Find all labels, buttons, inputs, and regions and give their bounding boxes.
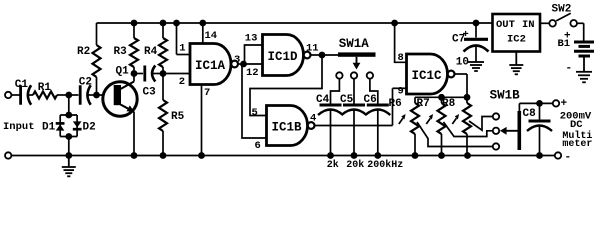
resistor R4 [144,23,167,74]
pin label 6 [255,140,261,152]
wire IC1C output [454,74,467,97]
svg-text:IC1D: IC1D [268,50,299,64]
wire base node to Q1 [97,94,115,96]
wire diodes to rail [68,137,70,156]
svg-text:SW1A: SW1A [339,37,370,51]
svg-text:IC1C: IC1C [412,69,443,83]
node top-R8 [464,94,471,101]
trimmer R8 [442,97,471,155]
node rail-diodes [65,152,72,159]
ground symbol C7 [468,62,484,71]
wire C7 to ground [475,47,477,63]
wire contact1 to C4 [331,79,340,104]
node rail-R3 [131,20,138,27]
input terminal - [5,152,11,158]
wire C8 top [539,103,541,119]
label plus output [561,98,568,110]
svg-text:R7: R7 [417,98,430,110]
transistor Q1 collector [121,74,135,90]
switch SW2 [549,4,577,27]
svg-text:R5: R5 [171,111,185,123]
node rail-R4 [160,20,167,27]
svg-text:IN: IN [522,19,535,31]
node top-R7 [438,94,445,101]
svg-text:R4: R4 [144,46,158,58]
wire pin6 [242,64,267,138]
pin label 12 [246,67,259,79]
output terminal + [553,100,559,106]
svg-text:R8: R8 [442,98,456,110]
node rail-C6 [374,152,381,159]
wire trimmer top line [415,96,467,98]
svg-text:IC2: IC2 [507,34,526,46]
wire diode branch bottom [60,136,77,138]
svg-text:-: - [566,63,573,75]
svg-text:5: 5 [252,107,258,119]
switch SW1A contact 1 [336,72,342,78]
wire pin14 [202,23,204,43]
capacitor C5 [340,94,367,115]
svg-text:14: 14 [205,30,218,42]
node rail-R7 [438,152,445,159]
wire pin7 [201,85,203,156]
svg-text:12: 12 [246,67,259,79]
wire R6 wiper to contact3 [417,122,493,147]
wire C7 top [475,23,477,38]
wire diodes stem top [68,95,70,115]
svg-text:7: 7 [204,87,210,99]
wire pin8 [395,23,407,62]
wire R1 to node [57,94,69,96]
pin label 11 [306,42,319,54]
svg-text:SW2: SW2 [552,4,572,16]
switch SW1B bar [518,111,522,150]
svg-text:DC: DC [570,119,583,131]
switch SW1A contact 3 [367,72,373,78]
switch SW1B contact 1 [493,113,499,119]
wire C4 to rail [330,110,332,156]
transistor Q1 body [103,65,137,116]
pin label 7 [204,87,210,99]
label B1 minus [566,63,573,75]
switch SW1A contact 2 [351,72,357,78]
svg-text:R1: R1 [38,82,52,94]
pin label 14 [205,30,218,42]
svg-text:+: + [463,29,469,41]
trimmer R7 arrow [426,114,433,124]
capacitor C7 [452,29,489,52]
svg-text:C2: C2 [79,77,92,89]
input terminal + [5,92,11,98]
capacitor C3 [143,66,157,99]
capacitor C1 [15,79,31,105]
node IC1D out [319,52,326,59]
svg-text:Input: Input [3,121,35,133]
node rail-R6 [412,152,419,159]
transistor Q1 emitter [121,105,135,156]
node collector-C3 [131,70,138,77]
capacitor C2 [79,77,92,105]
node rail-pin7 [198,152,205,159]
pin label 3 [234,54,240,66]
label 200kHz [367,159,403,171]
label 20k [346,159,364,171]
svg-text:2: 2 [179,76,185,88]
label 200mV [560,110,592,122]
switch SW1B arrow [500,127,518,135]
wire C1 to R1 [28,94,33,96]
wire V+ top rail [97,22,493,24]
svg-text:D1: D1 [42,122,56,134]
svg-text:Q1: Q1 [116,65,130,77]
svg-text:R6: R6 [389,98,402,110]
svg-text:20k: 20k [346,159,364,171]
switch SW1A bar [338,37,376,57]
nand gate IC1C [407,54,455,94]
pin label 1 [179,43,185,55]
node rail-pin14 [199,20,206,27]
wire pin13 [245,45,263,64]
node R4-R5-pin2 [160,70,167,77]
wire R2 top drop [96,23,98,45]
node C8 top [536,100,543,107]
pin label 4 [310,112,316,124]
pin label 5 [252,107,258,119]
trimmer R6 [389,97,420,155]
pin label 13 [245,33,258,45]
node rail-C7 [473,20,480,27]
node rail-R8 [464,152,471,159]
svg-text:C6: C6 [364,94,377,106]
wire IC2 ground [515,52,517,65]
resistor R2 [77,45,101,95]
ground rail bottom [11,155,554,157]
resistor R5 [159,74,185,156]
wire diode branch top [60,115,77,137]
svg-text:-: - [565,152,572,164]
switch SW1B contact 3 [493,143,499,149]
wire collector node to C3 [134,73,143,75]
wire C2 to base node [87,94,97,96]
switch SW1A arrow [353,57,361,70]
label SW1B [490,88,521,102]
diode D2 [73,121,96,133]
svg-text:IC1A: IC1A [195,59,226,73]
pin label 10 [456,56,469,68]
node base [93,92,100,99]
wire SW1B to output [519,103,552,111]
svg-text:meter: meter [562,139,592,150]
svg-text:11: 11 [306,42,319,54]
node IC1A out [240,61,247,68]
trimmer R8 arrow [452,114,459,124]
node rail-C4 [327,152,334,159]
label 2k [327,159,339,171]
wire contact2 to C5 [353,79,355,104]
resistor R3 [114,23,139,74]
svg-text:R3: R3 [114,46,128,58]
regulator IC2 [493,14,541,52]
wire node to pin2 [163,73,190,75]
label minus output [565,152,572,164]
node rail-emitter [131,152,138,159]
svg-text:2k: 2k [327,159,339,171]
wire B1 to ground [583,56,585,71]
wire C3 to R4 node [152,73,164,75]
label DC [570,119,583,131]
node rail-R5 [160,152,167,159]
label Input [3,121,35,133]
wire R8 wiper to contact1 [469,117,493,131]
svg-text:9: 9 [398,86,404,98]
wire IC1A output [238,63,244,65]
pin label 8 [398,52,404,64]
svg-text:D2: D2 [83,122,96,134]
nand gate IC1A [190,44,238,85]
node rail-C8 [536,152,543,159]
node diodes top [65,112,72,119]
wire pin12 [244,63,263,65]
svg-text:C4: C4 [316,94,330,106]
node rail-pin8 [391,20,398,27]
diode D1 [42,122,65,134]
svg-text:C8: C8 [523,108,537,120]
svg-text:1: 1 [179,43,185,55]
trimmer R7 [417,97,446,155]
label B1 plus [564,31,571,43]
svg-text:10: 10 [456,56,469,68]
wire IC1B output to pin9 riser [315,88,407,125]
wire input to C1 [11,94,19,96]
svg-text:13: 13 [245,33,258,45]
wire C5 to rail [353,110,355,156]
capacitor C8 [523,108,553,131]
svg-text:3: 3 [234,54,240,66]
svg-text:OUT: OUT [496,19,515,31]
label meter [562,139,592,150]
ground symbol input [62,156,76,177]
resistor R1 [33,82,57,99]
output terminal - [555,152,561,158]
svg-text:4: 4 [310,112,316,124]
nand gate IC1B [267,106,315,146]
capacitor C6 [364,94,391,115]
wire contact3 to C6 [370,79,378,104]
wire C6 to rail [377,110,379,156]
node input-diodes [65,92,72,99]
svg-text:+: + [561,98,568,110]
svg-text:+: + [564,31,571,43]
wire pin5 feedback [250,55,322,116]
wire node to C2 [69,94,79,96]
nand gate IC1D [263,35,311,76]
svg-text:C1: C1 [15,79,29,91]
node rail-C5 [351,152,358,159]
trimmer R6 arrow [399,114,406,124]
pin label 2 [179,76,185,88]
wire R7 wiper to contact2 [444,122,493,137]
node diodes bottom [65,133,72,140]
wire IC1D output [311,54,323,56]
svg-text:200kHz: 200kHz [367,159,403,171]
battery B1 [558,38,595,56]
svg-text:C5: C5 [340,94,354,106]
svg-text:R2: R2 [77,46,90,58]
wire IC2 to SW2 [540,22,549,24]
switch SW1B contact 2 [493,128,499,134]
label Multi [562,130,592,142]
svg-text:C3: C3 [143,86,157,98]
wire SW2 to B1 [577,23,584,40]
wire pin1 riser [177,23,191,55]
svg-text:6: 6 [255,140,261,152]
pin label 9 [398,86,404,98]
svg-text:IC1B: IC1B [272,121,303,135]
ground symbol B1 [576,72,592,83]
ground symbol IC2 [509,65,523,74]
svg-text:SW1B: SW1B [490,88,521,102]
svg-text:8: 8 [398,52,404,64]
wire IC1D out to SW1A [322,54,339,56]
wire C8 to rail [539,126,541,156]
capacitor C4 [316,94,343,115]
node rail-pin1 [173,20,180,27]
